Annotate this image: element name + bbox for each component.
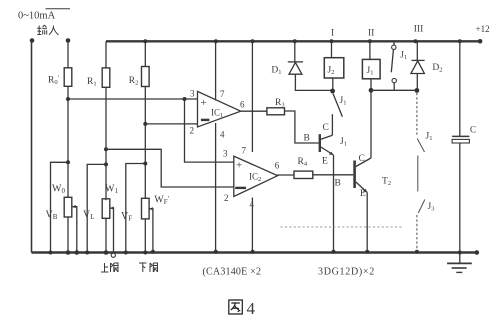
svg-text:R1: R1 bbox=[87, 77, 97, 88]
svg-text:E: E bbox=[322, 157, 328, 167]
svg-text:J1: J1 bbox=[340, 96, 347, 107]
svg-text:D1: D1 bbox=[271, 66, 281, 77]
svg-text:(CA3140E ×2: (CA3140E ×2 bbox=[203, 267, 262, 278]
svg-text:B: B bbox=[335, 179, 341, 189]
svg-text:0~10mA: 0~10mA bbox=[18, 11, 56, 22]
svg-text:T2: T2 bbox=[382, 177, 391, 188]
svg-text:WF′: WF′ bbox=[154, 195, 169, 207]
svg-text:R4: R4 bbox=[298, 157, 308, 168]
svg-text:C: C bbox=[470, 125, 476, 135]
svg-text:J1: J1 bbox=[400, 51, 407, 62]
svg-text:2: 2 bbox=[224, 193, 229, 203]
svg-text:III: III bbox=[414, 25, 424, 35]
svg-text:W0: W0 bbox=[52, 184, 65, 196]
svg-text:C: C bbox=[359, 154, 365, 164]
svg-text:3: 3 bbox=[190, 89, 195, 99]
svg-text:IC1: IC1 bbox=[211, 108, 223, 120]
svg-text:7: 7 bbox=[242, 146, 247, 156]
svg-text:4: 4 bbox=[247, 299, 256, 318]
svg-text:J1: J1 bbox=[426, 132, 433, 143]
svg-text:7: 7 bbox=[220, 89, 225, 99]
svg-text:E: E bbox=[360, 189, 366, 199]
svg-text:6: 6 bbox=[275, 161, 280, 171]
svg-text:C: C bbox=[323, 123, 329, 133]
svg-text:J3: J3 bbox=[428, 202, 435, 213]
svg-text:VB: VB bbox=[46, 210, 58, 222]
svg-text:D2: D2 bbox=[432, 63, 442, 74]
svg-text:4: 4 bbox=[220, 130, 225, 140]
svg-text:3DG12D)×2: 3DG12D)×2 bbox=[318, 267, 375, 278]
svg-text:+: + bbox=[201, 97, 207, 109]
svg-text:3: 3 bbox=[223, 149, 228, 159]
svg-text:VL: VL bbox=[83, 210, 95, 222]
svg-text:I: I bbox=[331, 29, 334, 39]
svg-text:J2: J2 bbox=[328, 66, 335, 77]
svg-text:B: B bbox=[304, 134, 310, 144]
svg-text:2: 2 bbox=[190, 126, 195, 136]
svg-text:R0′: R0′ bbox=[48, 75, 60, 87]
svg-text:+: + bbox=[236, 160, 242, 172]
svg-text:IC2: IC2 bbox=[249, 172, 261, 184]
svg-text:VF: VF bbox=[121, 211, 132, 223]
svg-text:J1: J1 bbox=[340, 137, 347, 148]
svg-text:6: 6 bbox=[240, 100, 245, 110]
svg-text:J1: J1 bbox=[367, 66, 374, 77]
svg-text:W1: W1 bbox=[105, 184, 118, 196]
svg-text:R2: R2 bbox=[129, 76, 139, 87]
svg-text:II: II bbox=[368, 29, 374, 39]
svg-text:4: 4 bbox=[250, 200, 255, 210]
svg-text:R3: R3 bbox=[275, 98, 285, 109]
svg-text:+12: +12 bbox=[476, 24, 490, 34]
